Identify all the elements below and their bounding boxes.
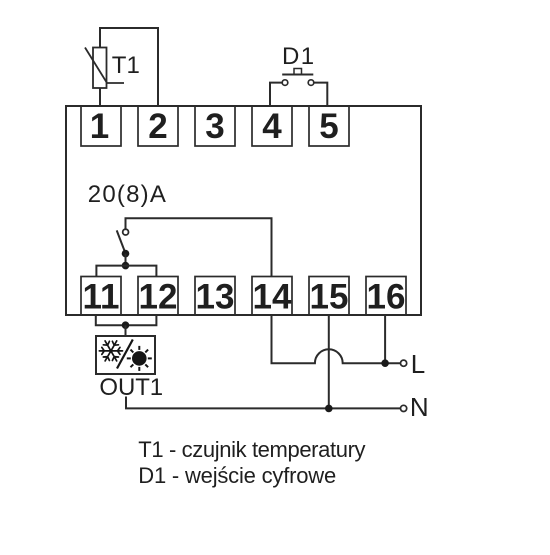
terminal 4 — [252, 106, 292, 146]
svg-text:L: L — [411, 349, 425, 379]
pushbutton D1 knob — [294, 69, 302, 75]
OUT1 box — [96, 336, 155, 374]
wire button right to terminal 5 — [314, 83, 327, 106]
svg-text:12: 12 — [139, 277, 178, 316]
thermistor T1 diagonal — [85, 48, 124, 84]
thermistor T1 body — [93, 48, 107, 89]
svg-text:3: 3 — [205, 107, 224, 146]
terminal 15 — [309, 277, 349, 316]
node N circle — [401, 405, 407, 411]
svg-text:T1: T1 — [112, 52, 140, 79]
pushbutton D1 right contact — [308, 80, 314, 86]
wire dot to OUT1 box — [125, 325, 127, 336]
relay fixed contact circle — [123, 229, 129, 235]
terminal 3 — [195, 106, 235, 146]
pushbutton D1 left contact — [282, 80, 288, 86]
terminal 2 — [138, 106, 178, 146]
svg-text:11: 11 — [83, 277, 120, 316]
node L circle — [401, 360, 407, 366]
svg-text:D1: D1 — [282, 43, 315, 70]
wire OUT1 to N — [126, 397, 401, 409]
svg-text:T1 - czujnik temperatury: T1 - czujnik temperatury — [138, 437, 365, 462]
junction dot 15-N — [325, 405, 333, 413]
OUT1 snowflake icon — [99, 341, 122, 361]
terminal 13 — [195, 277, 235, 316]
terminal 1 — [81, 106, 121, 146]
device outline box — [66, 106, 421, 315]
wire relay contact to terminal 14 — [126, 218, 272, 276]
wire button left to terminal 4 — [270, 83, 282, 106]
svg-text:D1 - wejście cyfrowe: D1 - wejście cyfrowe — [138, 463, 336, 488]
terminal 11 — [81, 277, 121, 316]
pushbutton D1 bar — [282, 74, 313, 76]
terminal 12 — [138, 277, 178, 316]
wire terminal 16 to L — [384, 315, 386, 363]
terminal 14 — [252, 277, 292, 316]
svg-text:4: 4 — [262, 107, 282, 146]
svg-text:5: 5 — [319, 107, 338, 146]
terminal 5 — [309, 106, 349, 146]
wire T1 loop — [100, 28, 158, 106]
svg-text:13: 13 — [196, 277, 235, 316]
junction dot blade pivot — [122, 250, 130, 258]
svg-text:N: N — [410, 392, 429, 422]
junction dot bracket — [122, 262, 130, 270]
svg-text:2: 2 — [148, 107, 167, 146]
relay blade — [117, 230, 126, 253]
svg-text:1: 1 — [90, 107, 109, 146]
junction dot 16-L — [381, 359, 389, 367]
svg-text:14: 14 — [253, 277, 292, 316]
wire pivot to bracket — [125, 254, 127, 266]
OUT1 sun icon — [127, 346, 152, 371]
bracket wire terminals 11-12 top — [96, 266, 156, 277]
svg-text:16: 16 — [367, 277, 406, 316]
wire terminal 15 to N — [328, 315, 330, 408]
OUT1 slash — [117, 340, 133, 369]
svg-text:OUT1: OUT1 — [99, 374, 163, 401]
svg-text:20(8)A: 20(8)A — [88, 181, 167, 208]
svg-text:15: 15 — [310, 277, 349, 316]
junction dot OUT1 — [122, 321, 130, 329]
wire terminal 14 to L with hop — [272, 315, 401, 363]
terminal 16 — [366, 277, 406, 316]
bracket wire terminals 11-12 bottom — [96, 315, 157, 325]
